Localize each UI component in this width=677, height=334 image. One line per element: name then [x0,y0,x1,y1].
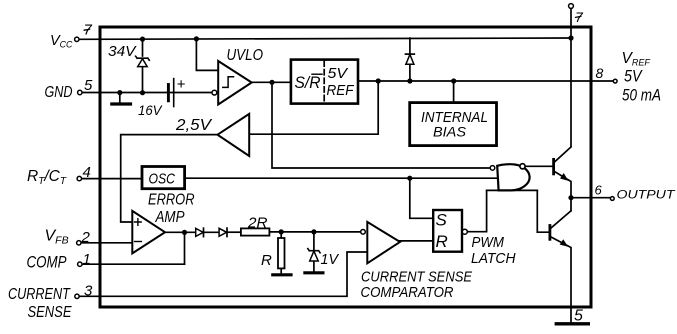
svg-text:5V: 5V [328,66,349,82]
svg-text:6: 6 [595,183,603,198]
svg-text:5V: 5V [624,68,643,86]
svg-text:1: 1 [83,251,91,268]
svg-text:2: 2 [81,229,91,246]
svg-text:S: S [436,211,448,230]
svg-text:LATCH: LATCH [471,251,516,267]
svg-text:COMP: COMP [27,254,67,272]
svg-text:34V: 34V [108,44,137,60]
svg-text:COMPARATOR: COMPARATOR [361,285,454,301]
svg-text:OSC: OSC [149,171,176,188]
svg-text:CURRENT: CURRENT [8,286,71,303]
svg-text:S/R: S/R [295,74,321,92]
svg-text:16V: 16V [138,103,163,118]
svg-text:+: + [177,76,186,93]
svg-text:4: 4 [83,164,91,181]
svg-text:OUTPUT: OUTPUT [617,187,677,201]
svg-text:8: 8 [596,65,604,81]
svg-text:R: R [436,232,448,251]
svg-text:7: 7 [84,22,93,39]
svg-text:50 mA: 50 mA [622,86,661,104]
svg-text:CURRENT SENSE: CURRENT SENSE [361,270,472,286]
svg-text:2R: 2R [247,215,268,232]
svg-text:BIAS: BIAS [433,124,467,140]
svg-text:PWM: PWM [472,234,505,251]
svg-text:GND: GND [45,84,73,101]
svg-text:7: 7 [575,9,584,25]
svg-text:UVLO: UVLO [227,47,264,64]
svg-text:ERROR: ERROR [148,192,195,209]
svg-text:R: R [261,252,272,269]
svg-text:1V: 1V [321,251,340,268]
svg-text:3: 3 [84,283,93,300]
svg-text:5: 5 [84,77,93,94]
svg-text:2,5V: 2,5V [175,117,213,134]
svg-text:5: 5 [574,308,583,325]
svg-text:AMP: AMP [155,209,185,226]
svg-text:REF: REF [327,82,355,99]
svg-text:SENSE: SENSE [28,304,73,321]
